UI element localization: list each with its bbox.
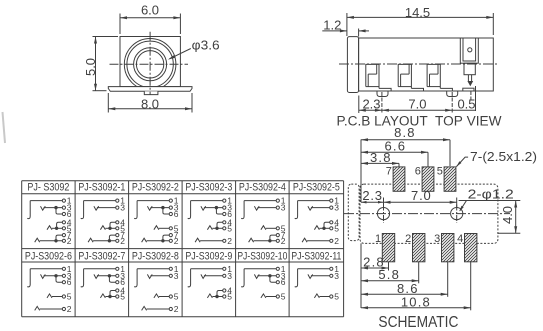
side view: center line [339, 63, 497, 65]
side view: body [359, 38, 494, 91]
schematic cell PJ-S3092-2 [134, 196, 179, 246]
dimension 6.6 (pcb top) [361, 151, 428, 153]
svg-text:PJ-S3092-7: PJ-S3092-7 [78, 251, 125, 263]
svg-text:6: 6 [67, 277, 72, 287]
svg-text:14.5: 14.5 [405, 5, 430, 20]
side view: solder foot 1 [377, 91, 388, 97]
dimension 14.5 [346, 13, 348, 36]
schematic cell PJ-S3092-4 [241, 196, 286, 246]
side view: front bezel plate [347, 37, 358, 93]
svg-text:PJ-S3092-2: PJ-S3092-2 [132, 182, 179, 194]
front view: jack body [120, 37, 180, 87]
svg-text:SCHEMATIC: SCHEMATIC [378, 314, 458, 331]
side view: solder foot 2 [447, 91, 458, 97]
svg-text:5.0: 5.0 [83, 58, 98, 76]
svg-text:2: 2 [174, 304, 179, 314]
svg-text:PJ- S3092: PJ- S3092 [27, 182, 69, 194]
svg-text:4: 4 [457, 233, 463, 245]
svg-text:PJ-S3092-9: PJ-S3092-9 [185, 251, 232, 263]
pcb: bottom pads (hatched) [382, 234, 394, 262]
svg-text:4: 4 [120, 286, 125, 296]
svg-text:7.0: 7.0 [408, 97, 426, 112]
front view: barrel circles [124, 39, 176, 91]
front view: bottom center tab [144, 91, 158, 94]
dimension 10.8 (pcb bottom) [470, 262, 472, 310]
svg-text:7.0: 7.0 [411, 188, 431, 203]
dimension 7.0 (side bottom) [451, 92, 453, 113]
schematic cell PJ-S3092-8 [134, 264, 179, 314]
svg-text:0.5: 0.5 [457, 97, 475, 112]
svg-text:PJ-S3092-6: PJ-S3092-6 [25, 251, 72, 263]
svg-text:PJ-S3092-3: PJ-S3092-3 [185, 182, 232, 194]
schematic cell PJ- S3092 [27, 196, 72, 246]
svg-text:6: 6 [281, 277, 286, 287]
schematic cell PJ-S3092-9 [188, 264, 233, 302]
svg-text:5: 5 [437, 166, 443, 178]
schematic cell PJ-S3092-3 [188, 196, 233, 246]
schematic cell PJ-S3092-10 [241, 264, 286, 302]
svg-text:PJ-S3092-11: PJ-S3092-11 [291, 251, 341, 263]
svg-text:5: 5 [334, 292, 339, 302]
svg-text:PJ-S3092-4: PJ-S3092-4 [239, 182, 286, 194]
pcb: mounting hole right [451, 208, 463, 220]
side view: switch contact block [460, 38, 478, 63]
svg-text:3: 3 [334, 203, 339, 213]
dimension 4.0 (pcb right) [459, 200, 521, 202]
svg-text:6: 6 [415, 166, 421, 178]
svg-text:7: 7 [120, 230, 125, 240]
schematic cell PJ-S3092-11 [295, 264, 340, 302]
dimension 5.0 (left height) [93, 36, 119, 38]
svg-text:3: 3 [281, 203, 286, 213]
svg-text:4: 4 [67, 217, 72, 227]
svg-text:3.8: 3.8 [370, 150, 392, 165]
svg-text:3: 3 [174, 271, 179, 281]
dimension 5.8 (pcb bottom) [418, 262, 420, 283]
svg-text:3: 3 [434, 233, 440, 245]
side view: switch pin [467, 75, 469, 82]
svg-text:2.3: 2.3 [362, 188, 382, 203]
svg-text:2: 2 [334, 236, 339, 246]
pcb: dashed body outline [360, 184, 498, 243]
dimension 0.5 (side bottom) [470, 91, 472, 101]
svg-text:4.0: 4.0 [500, 206, 515, 224]
side view: internal contacts [366, 64, 379, 88]
svg-text:3: 3 [334, 271, 339, 281]
dimension 7.0 (pcb, hole pitch) [456, 198, 458, 208]
svg-text:2.3: 2.3 [362, 97, 380, 112]
dimension 8.6 (pcb bottom) [447, 262, 449, 297]
front view: center crosshair [110, 63, 189, 65]
svg-text:φ3.6: φ3.6 [192, 38, 220, 53]
dimension 3.8 (pcb top) [361, 162, 399, 164]
svg-text:PJ-S3092-8: PJ-S3092-8 [132, 251, 179, 263]
dimension 2.3 (pcb) [383, 198, 385, 208]
pcb: dashed barrel protrusion [348, 184, 359, 241]
pcb: mounting hole left [377, 208, 389, 220]
dimension 2.8 (pcb bottom) [388, 262, 390, 271]
svg-text:2: 2 [227, 236, 232, 246]
svg-text:7-(2.5x1.2): 7-(2.5x1.2) [470, 149, 537, 164]
svg-text:5: 5 [67, 292, 72, 302]
svg-text:8.0: 8.0 [141, 96, 159, 111]
svg-text:2-φ1.2: 2-φ1.2 [468, 187, 514, 202]
dimension 2.3 (side bottom) [358, 96, 360, 114]
svg-text:2: 2 [67, 304, 72, 314]
dimension 8.8 (pcb top) [361, 139, 450, 141]
schematic cell PJ-S3092-7 [81, 264, 126, 302]
svg-text:6.0: 6.0 [141, 3, 159, 18]
pcb: left reference extension line [360, 140, 362, 203]
pcb: top pads (hatched) [393, 167, 405, 191]
svg-text:4: 4 [227, 217, 232, 227]
svg-text:10.8: 10.8 [401, 294, 431, 309]
schematic cell PJ-S3092-6 [27, 264, 72, 314]
svg-text:6: 6 [174, 209, 179, 219]
svg-text:4: 4 [227, 286, 232, 296]
svg-text:2: 2 [405, 233, 411, 245]
svg-text:3: 3 [227, 271, 232, 281]
dimension 1.2 (bezel) [358, 29, 360, 37]
svg-text:5: 5 [174, 292, 179, 302]
svg-text:4: 4 [120, 217, 125, 227]
svg-text:7: 7 [386, 166, 392, 178]
svg-text:3: 3 [120, 203, 125, 213]
front view: mounting flange [108, 87, 192, 92]
svg-text:5: 5 [281, 292, 286, 302]
table: part number grid [22, 180, 344, 182]
schematic cell PJ-S3092-1 [81, 196, 126, 246]
schematic cell PJ-S3092-5 [295, 196, 340, 246]
svg-text:P.C.B LAYOUT TOP VIEW: P.C.B LAYOUT TOP VIEW [337, 114, 502, 129]
pcb: horizontal center line [344, 213, 510, 215]
scan artifact smudge top-left [3, 112, 6, 143]
svg-text:PJ-S3092-10: PJ-S3092-10 [237, 251, 287, 263]
svg-text:PJ-S3092-5: PJ-S3092-5 [293, 182, 340, 194]
svg-text:7: 7 [67, 230, 72, 240]
svg-text:7: 7 [281, 230, 286, 240]
dimension 8.0 (bottom width) [107, 93, 109, 113]
svg-text:4: 4 [334, 217, 339, 227]
svg-text:7: 7 [174, 230, 179, 240]
svg-text:PJ-S3092-1: PJ-S3092-1 [78, 182, 125, 194]
dimension 6.0 (top width) [119, 14, 121, 35]
svg-text:1: 1 [375, 233, 381, 245]
svg-text:1.2: 1.2 [323, 18, 341, 33]
